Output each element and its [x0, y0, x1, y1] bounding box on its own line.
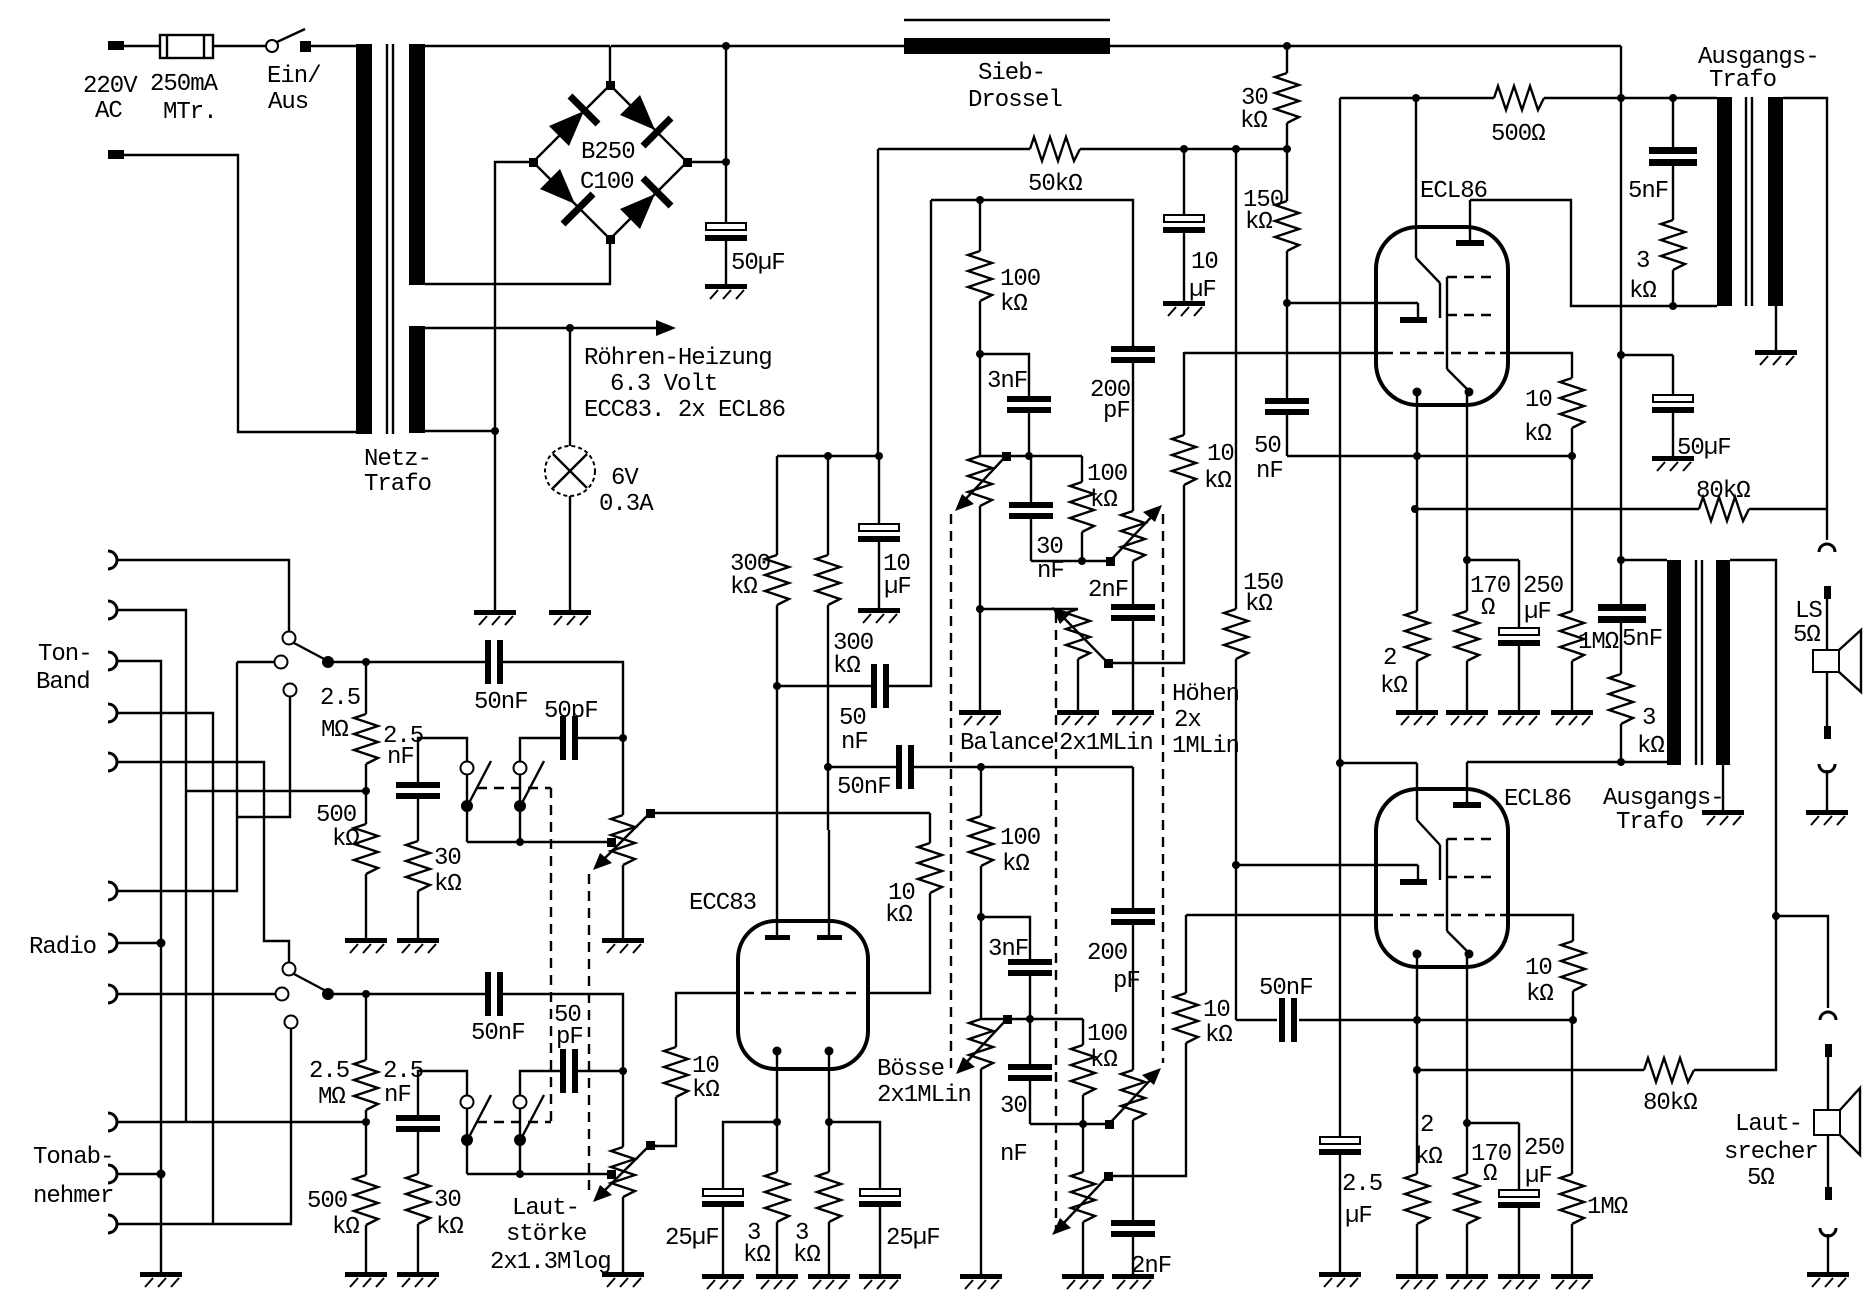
node [1463, 556, 1471, 564]
ground [1702, 810, 1744, 825]
node [977, 913, 985, 921]
wire wiper to 10k ch1 [1108, 485, 1184, 663]
label 30 nF [1036, 534, 1064, 585]
resistor 10k ch1 feed [1172, 352, 1196, 485]
label Roehren-Heizung [584, 345, 785, 424]
node cathode b junction [825, 1118, 833, 1126]
input terminal t5 [108, 753, 117, 771]
svg-text:Trafo: Trafo [1616, 809, 1683, 836]
label 10k [1204, 441, 1234, 495]
svg-text:nF: nF [384, 1082, 411, 1109]
svg-text:1MΩ: 1MΩ [1587, 1194, 1628, 1221]
node [362, 787, 370, 795]
wire [124, 155, 356, 432]
resistor 100k ch2 first [969, 767, 993, 1019]
svg-text:3: 3 [1642, 705, 1655, 732]
capacitor 5nF ch2 [1598, 560, 1646, 623]
input terminal t7 [108, 934, 117, 952]
label 100k [1087, 461, 1127, 514]
node plate a tap [773, 682, 781, 690]
wire [1080, 148, 1287, 150]
node [1026, 1015, 1034, 1023]
capacitor 50nF ch2 volume [366, 972, 623, 1147]
wire NFB rail y456 [1287, 455, 1572, 457]
label 2.5 nF [383, 1058, 423, 1109]
capacitor 50uF ch1 screen [1621, 355, 1694, 456]
capacitor 50nF ch2 NFB [1279, 998, 1297, 1042]
U1 triode plate [1416, 98, 1440, 318]
Netz-Trafo primary winding [356, 44, 372, 434]
gang dashed ch2 switches [477, 1121, 551, 1123]
svg-text:Sieb-: Sieb- [978, 60, 1045, 87]
potentiometer Balance2 ch1 [1052, 607, 1113, 710]
U2 pentode grids g2 g3 [1447, 839, 1498, 953]
label 30k [434, 845, 461, 898]
Ausgangs-Trafo2 secondary [1716, 560, 1730, 765]
potentiometer Boesse ch2 [956, 1015, 1012, 1274]
ground [1319, 1272, 1361, 1287]
capacitor 250uF ch2 [1467, 1123, 1540, 1274]
Ausgangs-Trafo1 secondary [1768, 97, 1783, 306]
svg-text:Balance: Balance [960, 730, 1054, 757]
wire NFB rail y509 [1415, 508, 1699, 510]
label 10k [1203, 997, 1232, 1049]
resistor 500R [1494, 86, 1544, 110]
resistor 80k ch2 [1644, 1058, 1694, 1082]
U2 control grid dashed [1383, 914, 1502, 916]
ground [1806, 810, 1848, 825]
svg-text:2x1MLin: 2x1MLin [1059, 730, 1153, 757]
svg-text:kΩ: kΩ [885, 902, 912, 929]
ECC83 plate a [765, 830, 790, 940]
svg-text:10: 10 [692, 1053, 719, 1080]
wire bridge - output [495, 162, 533, 431]
label 2k [1415, 1112, 1442, 1171]
record switch b ch2 [514, 1095, 545, 1174]
ground [345, 1272, 387, 1287]
ground [859, 1274, 901, 1289]
resistor 50k [1030, 137, 1080, 161]
label 10k [692, 1053, 719, 1104]
svg-text:5Ω: 5Ω [1747, 1165, 1774, 1192]
node [722, 158, 730, 166]
svg-text:Laut-: Laut- [512, 1195, 579, 1222]
ground [1112, 1274, 1154, 1289]
Ausgangs-Trafo1 core [1746, 97, 1752, 306]
wire U1 grid left [1184, 352, 1384, 354]
U2 triode plate [1417, 763, 1440, 880]
svg-text:50: 50 [1254, 433, 1281, 460]
resistor 2.5M ch1 [354, 662, 378, 791]
wire B+ top rail to choke [611, 45, 904, 47]
svg-text:Bösse: Bösse [877, 1056, 944, 1083]
resistor 10k grid a [655, 1047, 688, 1146]
svg-text:220V: 220V [83, 73, 138, 100]
svg-text:kΩ: kΩ [1526, 981, 1553, 1008]
label 10k [1525, 955, 1553, 1008]
Netz-Trafo heater winding [409, 326, 425, 433]
wire [117, 1121, 366, 1123]
resistor 100k ch1 second [1070, 456, 1094, 561]
svg-text:kΩ: kΩ [1524, 421, 1551, 448]
U2 triode cathode [1400, 865, 1427, 885]
ground [960, 1274, 1002, 1289]
ground [1396, 1274, 1438, 1289]
svg-text:kΩ: kΩ [730, 574, 757, 601]
label 300k [833, 630, 873, 680]
node [1617, 758, 1625, 766]
wire NFB rail ch2 y1020 [1236, 1019, 1573, 1021]
capacitor 25uF b [829, 1122, 901, 1274]
potentiometer Balance ch1 [955, 452, 1011, 710]
Sieb-Drossel winding [904, 38, 1110, 54]
svg-text:6.3 Volt: 6.3 Volt [610, 371, 717, 398]
wire tone rail ch1 y200 [931, 200, 1133, 346]
ground [474, 610, 516, 625]
wire HV secondary top to bridge [425, 45, 610, 47]
svg-text:µF: µF [1189, 277, 1216, 304]
wire wiper rail ch1 [980, 455, 1082, 457]
ground [397, 938, 439, 953]
wire [1694, 916, 1776, 1070]
node [157, 939, 166, 948]
node [875, 452, 883, 460]
wire [1544, 97, 1717, 99]
resistor 1M ch2 [1560, 1020, 1584, 1274]
node wiper cross [607, 838, 616, 847]
wire heater winding bottom [425, 430, 495, 432]
svg-text:Ton-: Ton- [38, 641, 92, 668]
label 100k [1087, 1021, 1127, 1074]
record switch b ch1 [514, 761, 545, 842]
node [1412, 94, 1420, 102]
wire [117, 993, 275, 995]
wire U2 pentode plate rail [1467, 761, 1667, 763]
svg-text:kΩ: kΩ [1205, 1022, 1232, 1049]
svg-text:kΩ: kΩ [434, 871, 461, 898]
label 170R [1470, 573, 1510, 622]
wire to 2.5M junction ch1 [186, 790, 366, 792]
svg-text:6V: 6V [611, 465, 639, 492]
U2 pentode plate [1453, 762, 1481, 808]
node [1025, 452, 1033, 460]
ground [602, 938, 644, 953]
svg-text:10: 10 [1525, 955, 1552, 982]
input terminal t9 [108, 1113, 117, 1131]
wire [117, 1173, 161, 1175]
node [1283, 299, 1291, 307]
svg-text:2.5: 2.5 [383, 1058, 423, 1085]
svg-text:30: 30 [1000, 1093, 1027, 1120]
svg-text:30: 30 [434, 845, 461, 872]
label 150k [1243, 570, 1283, 618]
wire plate b down [827, 767, 829, 830]
label 50 pF [554, 1002, 583, 1051]
wire [117, 610, 186, 1122]
node [1669, 302, 1677, 310]
label 2.5uF [1342, 1171, 1382, 1230]
wire balance out rail [980, 608, 1078, 610]
label Lautstaerke [490, 1195, 611, 1276]
resistor 80k ch1 [1699, 497, 1749, 521]
U1 control grid dashed [1383, 352, 1502, 354]
resistor 100k ch2 second [1071, 1019, 1095, 1124]
ECC83 cathode b [825, 1047, 834, 1123]
resistor 300k b [816, 456, 840, 767]
svg-text:10: 10 [1207, 441, 1234, 468]
svg-text:kΩ: kΩ [692, 1077, 719, 1104]
wire triode1 cathode rail [1287, 302, 1418, 304]
wire to speaker plug [1826, 509, 1828, 540]
label B250 C100 [580, 139, 635, 196]
wire heater top [425, 327, 656, 329]
svg-text:50pF: 50pF [544, 698, 598, 725]
svg-text:nehmer: nehmer [33, 1183, 113, 1210]
input terminal t1 [108, 551, 117, 569]
svg-text:2.5: 2.5 [320, 685, 360, 712]
label 2.5 M [309, 1058, 349, 1111]
node [491, 427, 499, 435]
U1 pentode grids g2 g3 [1447, 277, 1498, 391]
svg-text:nF: nF [841, 729, 868, 756]
ground [705, 284, 747, 299]
ground [397, 1272, 439, 1287]
label Ausgangs-Trafo no1 [1698, 44, 1819, 94]
svg-text:pF: pF [1103, 398, 1130, 425]
wire ECC83 grid b [866, 893, 930, 993]
node plate b tap [824, 763, 832, 771]
svg-text:1MLin: 1MLin [1172, 733, 1239, 760]
input terminal t10 [108, 1165, 117, 1183]
resistor 10k U1 grid leak [1560, 378, 1584, 456]
label 250mA MTr. [150, 71, 219, 126]
label 50 nF [839, 705, 868, 756]
node [157, 1170, 166, 1179]
svg-text:MΩ: MΩ [321, 717, 348, 744]
wire lamp feed [569, 328, 571, 446]
node [1669, 94, 1677, 102]
bridge rectifier B250 C100 frame [533, 85, 687, 239]
capacitor 30nF ch2 [1008, 1019, 1052, 1124]
label 30k [1240, 85, 1268, 135]
wire [1827, 1234, 1829, 1272]
svg-text:2x: 2x [1174, 707, 1201, 734]
label 3k [1637, 705, 1664, 760]
capacitor 50pF ch1 [520, 716, 623, 762]
diode D4 bottom-right [620, 178, 671, 229]
resistor 170R ch2 [1455, 954, 1479, 1274]
wire wiper rail ch2 [981, 1018, 1083, 1020]
svg-text:µF: µF [884, 574, 911, 601]
Sieb-Drossel core [904, 19, 1110, 21]
wire wiper ch1 to grid [650, 812, 930, 814]
wire bridge + output [687, 161, 726, 163]
wire [117, 560, 289, 631]
svg-text:5nF: 5nF [1622, 626, 1662, 653]
node [619, 734, 627, 742]
svg-text:10: 10 [1525, 387, 1552, 414]
resistor 10k ch2 feed [1108, 993, 1198, 1176]
potentiometer Hoehen ch1 [1106, 505, 1162, 604]
wire OT1 secondary bottom [1775, 306, 1777, 350]
ground [345, 938, 387, 953]
U1 triode cathode [1400, 303, 1427, 323]
wire [1183, 233, 1185, 301]
label Tonab- nehmer [33, 1144, 113, 1210]
svg-text:Ein/: Ein/ [267, 63, 321, 90]
svg-text:ECC83: ECC83 [689, 890, 756, 917]
svg-text:0.3A: 0.3A [599, 491, 654, 518]
gang dashed Balance2 [1055, 613, 1057, 1230]
svg-text:Laut-: Laut- [1735, 1111, 1802, 1138]
label 50nF [1254, 433, 1283, 485]
svg-text:80kΩ: 80kΩ [1696, 478, 1750, 505]
resistor 10k U2 grid leak [1561, 941, 1585, 1020]
label Boesse 2x1MLin [877, 1056, 971, 1109]
svg-text:nF: nF [1000, 1141, 1027, 1168]
node [824, 452, 832, 460]
ground [1807, 1272, 1849, 1287]
svg-text:Ausgangs-: Ausgangs- [1603, 785, 1724, 812]
svg-text:kΩ: kΩ [743, 1242, 770, 1269]
wire B+ rail y456 left [777, 455, 879, 457]
wire HV secondary bottom [425, 239, 610, 284]
capacitor 3nF ch1 [980, 354, 1051, 456]
node [1336, 759, 1344, 767]
Ausgangs-Trafo2 primary [1621, 560, 1681, 765]
svg-text:200: 200 [1087, 940, 1127, 967]
node [1079, 1120, 1087, 1128]
wire to speaker2 [1776, 916, 1828, 1008]
node [1413, 1016, 1421, 1024]
resistor 3k a [765, 1122, 789, 1274]
svg-text:5nF: 5nF [1628, 178, 1668, 205]
svg-text:Netz-: Netz- [364, 446, 431, 473]
fuse 250mA [160, 35, 213, 58]
capacitor 2nF ch1 [1111, 604, 1155, 710]
AC terminal 2 [108, 150, 124, 159]
ECC83 plate b [817, 830, 842, 940]
tube ECC83 envelope [738, 921, 868, 1069]
svg-text:50nF: 50nF [1259, 975, 1313, 1002]
svg-text:250: 250 [1523, 573, 1563, 600]
node [1283, 42, 1291, 50]
svg-text:100: 100 [1000, 825, 1040, 852]
wire OT2 secondary top [1730, 560, 1776, 916]
wire [725, 241, 727, 284]
Netz-Trafo HV secondary winding [409, 44, 425, 285]
wire x1340 drop [1339, 98, 1341, 1137]
label Ton- Band [36, 641, 92, 696]
svg-text:kΩ: kΩ [1380, 673, 1407, 700]
U1 pentode plate [1456, 200, 1484, 246]
resistor 30k ch2 [406, 1174, 430, 1272]
label 30k [434, 1187, 463, 1241]
wire switch bottom rail ch1 [467, 841, 607, 843]
svg-text:AC: AC [95, 98, 122, 125]
label Ein/Aus [267, 63, 321, 116]
Netz-Trafo core [387, 44, 393, 434]
svg-text:2.5: 2.5 [1342, 1171, 1382, 1198]
node [977, 763, 985, 771]
svg-text:kΩ: kΩ [1415, 1144, 1442, 1171]
svg-text:2nF: 2nF [1088, 577, 1128, 604]
input terminal t11 [108, 1215, 117, 1233]
ground [602, 1272, 644, 1287]
svg-text:nF: nF [1256, 458, 1283, 485]
wire switch bottom rail ch2 [467, 1173, 607, 1175]
label 100k [1000, 825, 1040, 878]
label Balance 2x1MLin [960, 730, 1153, 757]
node [1569, 1016, 1577, 1024]
node wiper cross [607, 1170, 616, 1179]
gang dashed Balance [950, 514, 952, 1068]
label Sieb-Drossel [968, 60, 1062, 114]
wire wiper ch2 to grid [650, 1145, 657, 1146]
ground [1551, 1274, 1593, 1289]
node bridge top riser [609, 46, 611, 85]
node [1413, 1066, 1421, 1074]
ground [1755, 350, 1797, 365]
resistor 150k [1275, 149, 1299, 303]
label 100k [1000, 266, 1040, 318]
ground [1057, 710, 1099, 725]
node [976, 350, 984, 358]
svg-text:Ω: Ω [1483, 1161, 1497, 1188]
wire treble rail ch1 [1031, 560, 1106, 562]
svg-text:ECL86: ECL86 [1504, 786, 1571, 813]
node [722, 42, 730, 50]
selector switch ch1 [275, 632, 335, 697]
wire plate a down [776, 686, 778, 830]
label 250uF [1523, 573, 1563, 626]
wire [124, 45, 160, 47]
label 10uF [1189, 249, 1218, 304]
svg-text:10: 10 [1203, 997, 1230, 1024]
input terminal t8 [108, 985, 117, 1003]
wire treble rail ch2 [1030, 1123, 1105, 1125]
wire screen feed riser [877, 149, 879, 456]
resistor 3k b [817, 1122, 841, 1274]
svg-text:kΩ: kΩ [1245, 209, 1272, 236]
label 6V 0.3A [599, 465, 654, 518]
svg-text:250mA: 250mA [150, 71, 219, 98]
resistor 150k second [1224, 609, 1248, 1020]
capacitor 50uF reservoir [705, 223, 747, 241]
input terminal t2 [108, 601, 117, 619]
U1 pentode cathode node [1465, 388, 1474, 397]
U2 triode grid-row node [1413, 950, 1422, 959]
svg-text:kΩ: kΩ [1245, 591, 1272, 618]
label 200 pF [1087, 940, 1140, 995]
node [516, 838, 524, 846]
label Ausgangs-Trafo no2 [1603, 785, 1724, 836]
ground [1446, 710, 1488, 725]
label 500k [307, 1188, 359, 1241]
lamp 6V 0.3A [545, 446, 595, 496]
wire middle throw ch1 [237, 661, 274, 663]
connector [1819, 544, 1835, 552]
svg-text:50nF: 50nF [474, 689, 528, 716]
wire NFB rail ch2 y1070 [1417, 1069, 1644, 1071]
wire B+ drop to OT [1620, 46, 1622, 560]
node [1617, 556, 1625, 564]
tube ECL86 U2 envelope [1376, 789, 1508, 967]
wire [117, 942, 161, 944]
heater arrow [656, 320, 676, 336]
svg-text:LS: LS [1795, 598, 1822, 625]
wire B+ rail after choke [1110, 45, 1621, 47]
